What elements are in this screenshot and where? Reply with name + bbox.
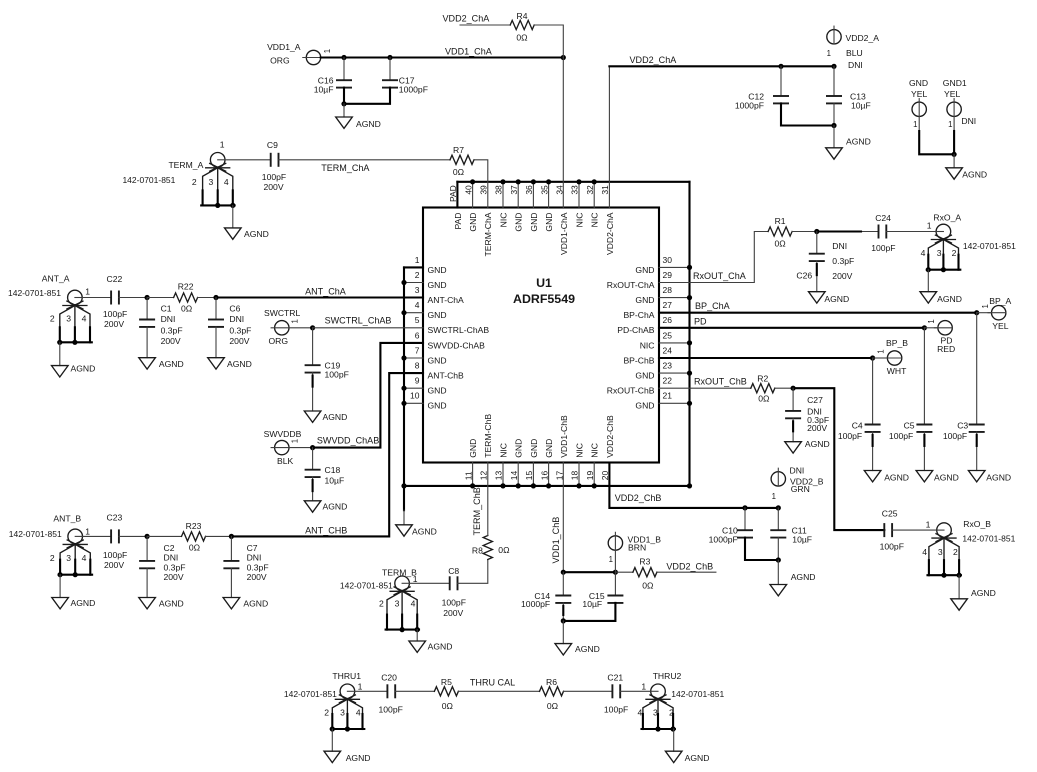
- wire VDD2_ChA rail: [609, 64, 836, 69]
- capacitor C25: [880, 509, 904, 552]
- svg-text:C9: C9: [267, 140, 278, 150]
- svg-text:36: 36: [524, 185, 534, 195]
- svg-text:6: 6: [415, 330, 420, 340]
- test point BP_B: [877, 338, 909, 376]
- wire R7 to pin39: [474, 160, 488, 208]
- svg-text:SWCTRL: SWCTRL: [264, 308, 301, 318]
- svg-text:1: 1: [827, 49, 831, 58]
- svg-text:YEL: YEL: [911, 89, 927, 99]
- svg-text:3: 3: [653, 708, 658, 718]
- wire C24 to RxO_A: [886, 231, 936, 233]
- ground AGND C18: [304, 501, 347, 512]
- svg-text:C18: C18: [325, 465, 341, 475]
- node ANT_ChA label: [305, 287, 347, 297]
- svg-text:C6: C6: [229, 304, 240, 314]
- svg-text:C4: C4: [852, 421, 863, 431]
- resistor R1: [768, 216, 792, 249]
- svg-text:100pF: 100pF: [604, 704, 628, 714]
- svg-text:DNI: DNI: [790, 466, 805, 476]
- ground AGND TERM_A: [225, 228, 269, 239]
- svg-text:AGND: AGND: [323, 412, 348, 422]
- wire C25 to RxO_B: [892, 529, 937, 531]
- wire R23 to junction: [206, 534, 234, 539]
- svg-text:THRU2: THRU2: [653, 671, 682, 681]
- svg-text:100pF: 100pF: [889, 431, 913, 441]
- ground AGND C26: [809, 292, 850, 304]
- svg-text:100pF: 100pF: [325, 370, 349, 380]
- svg-text:15: 15: [524, 470, 534, 480]
- svg-text:BP-ChB: BP-ChB: [623, 355, 654, 365]
- capacitor C2: [139, 536, 185, 597]
- resistor R23: [182, 521, 206, 553]
- svg-text:RxOUT_ChB: RxOUT_ChB: [694, 376, 747, 386]
- wire to AGND C14: [562, 621, 564, 644]
- node VDD2_ChA label left: [443, 14, 491, 24]
- test point VDD1_B: [608, 532, 661, 564]
- wire BP_B from pin24: [659, 355, 887, 360]
- svg-text:10: 10: [410, 391, 420, 401]
- node ANT_CHB label: [305, 526, 347, 536]
- svg-text:100pF: 100pF: [943, 431, 967, 441]
- svg-text:NIC: NIC: [590, 443, 600, 458]
- svg-text:VDD1-ChB: VDD1-ChB: [559, 415, 569, 458]
- svg-text:VDD2_A: VDD2_A: [846, 33, 880, 43]
- svg-text:10µF: 10µF: [314, 85, 334, 95]
- wire pin17 VDD1-ChB vertical: [561, 463, 566, 575]
- svg-text:3: 3: [66, 553, 71, 563]
- node RxOUT_ChA label: [693, 271, 747, 281]
- svg-text:VDD2-ChA: VDD2-ChA: [605, 212, 615, 255]
- node BP_ChA label: [695, 301, 731, 311]
- node TERM_ChA label: [321, 163, 370, 173]
- svg-text:R3: R3: [639, 556, 650, 566]
- svg-text:16: 16: [539, 470, 549, 480]
- svg-text:3: 3: [395, 599, 400, 609]
- svg-text:BRN: BRN: [628, 542, 646, 552]
- capacitor C10: [709, 508, 779, 560]
- capacitor C9: [262, 140, 286, 192]
- svg-text:GND: GND: [635, 401, 654, 411]
- svg-text:ORG: ORG: [269, 336, 289, 346]
- svg-text:27: 27: [663, 300, 673, 310]
- wire TERM_A AGND lead: [232, 205, 234, 228]
- svg-text:19: 19: [585, 470, 595, 480]
- wire RxOUT_ChB down to C25: [793, 388, 884, 530]
- wire VDD1_ChA rail: [321, 55, 566, 60]
- pin numbers bottom row 11-20: [463, 470, 610, 480]
- svg-text:TERM_ChA: TERM_ChA: [321, 163, 370, 173]
- svg-text:12: 12: [479, 470, 489, 480]
- wire SWVDD_ChAB to pin6: [313, 343, 423, 448]
- svg-text:142-0701-851: 142-0701-851: [9, 529, 62, 539]
- test point SWVDDB: [264, 429, 302, 466]
- svg-text:1: 1: [927, 221, 932, 231]
- svg-text:2: 2: [953, 547, 958, 557]
- svg-text:0Ω: 0Ω: [442, 701, 454, 711]
- svg-text:0Ω: 0Ω: [498, 545, 510, 555]
- svg-text:TERM_A: TERM_A: [168, 160, 203, 170]
- ground AGND C4: [864, 471, 909, 483]
- svg-text:2: 2: [415, 270, 420, 280]
- svg-text:PAD: PAD: [448, 185, 458, 202]
- wire AGND right bus: [688, 182, 690, 486]
- svg-text:0Ω: 0Ω: [453, 167, 465, 177]
- svg-text:PAD: PAD: [453, 213, 463, 230]
- svg-text:4: 4: [415, 300, 420, 310]
- wire C22 to R22: [119, 295, 174, 300]
- svg-text:NIC: NIC: [574, 443, 584, 458]
- svg-text:200V: 200V: [807, 423, 827, 433]
- svg-text:ANT_A: ANT_A: [42, 273, 70, 283]
- svg-text:VDD2_ChA: VDD2_ChA: [443, 14, 491, 24]
- svg-text:U1: U1: [536, 276, 552, 290]
- svg-text:GND: GND: [428, 310, 447, 320]
- svg-text:1000pF: 1000pF: [709, 535, 738, 545]
- svg-text:142-0701-851: 142-0701-851: [963, 241, 1016, 251]
- svg-text:GND: GND: [428, 401, 447, 411]
- svg-text:21: 21: [663, 391, 673, 401]
- svg-text:DNI: DNI: [848, 60, 863, 70]
- wire AGND left bus: [404, 267, 423, 524]
- ground AGND C7: [223, 598, 268, 609]
- ground AGND C5: [916, 471, 959, 483]
- wire pin34 VDD1-ChA: [562, 58, 564, 208]
- svg-text:2: 2: [952, 248, 957, 258]
- svg-text:ANT-ChB: ANT-ChB: [428, 371, 465, 381]
- node VDD2_ChB label at pin20: [615, 493, 662, 503]
- svg-text:4: 4: [922, 547, 927, 557]
- svg-text:2: 2: [50, 314, 55, 324]
- svg-text:DNI: DNI: [161, 314, 176, 324]
- svg-text:5: 5: [415, 315, 420, 325]
- svg-text:4: 4: [356, 708, 361, 718]
- svg-text:SWCTRL-ChAB: SWCTRL-ChAB: [428, 325, 490, 335]
- svg-text:37: 37: [509, 185, 519, 195]
- svg-text:DNI: DNI: [229, 314, 244, 324]
- capacitor C18: [305, 448, 345, 501]
- wire THRU2 AGND lead: [673, 729, 675, 751]
- svg-text:TERM_ChB: TERM_ChB: [472, 487, 482, 535]
- svg-text:SWVDD_ChAB: SWVDD_ChAB: [317, 435, 379, 445]
- svg-text:1: 1: [926, 519, 931, 529]
- svg-text:ORG: ORG: [270, 56, 290, 66]
- wire GND1 to junction: [952, 116, 957, 156]
- svg-text:AGND: AGND: [356, 119, 381, 129]
- wire top grounded pin stubs: [470, 179, 597, 207]
- ground AGND C1: [139, 358, 184, 370]
- svg-text:200V: 200V: [104, 319, 124, 329]
- svg-text:1: 1: [948, 120, 952, 129]
- ground AGND C10 C11: [770, 572, 816, 596]
- svg-text:R6: R6: [546, 677, 557, 687]
- svg-text:4: 4: [638, 708, 643, 718]
- wire C23 to R23: [119, 534, 182, 539]
- svg-text:VDD1_ChB: VDD1_ChB: [551, 517, 561, 564]
- svg-text:GND: GND: [428, 265, 447, 275]
- svg-text:R1: R1: [775, 216, 786, 226]
- svg-text:100pF: 100pF: [262, 172, 286, 182]
- wire TERM_A to C9: [225, 159, 271, 161]
- svg-text:142-0701-851: 142-0701-851: [340, 581, 393, 591]
- svg-text:3: 3: [66, 314, 71, 324]
- svg-text:WHT: WHT: [887, 366, 907, 376]
- svg-text:35: 35: [539, 185, 549, 195]
- wire AGND bottom bus: [401, 483, 692, 488]
- resistor R7: [450, 145, 474, 177]
- ground AGND C16: [336, 117, 381, 129]
- svg-text:VDD2_ChB: VDD2_ChB: [666, 561, 713, 571]
- svg-text:40: 40: [463, 185, 473, 195]
- node SWVDD_ChAB label: [317, 435, 379, 445]
- svg-text:AGND: AGND: [323, 502, 348, 512]
- ground AGND C13: [826, 137, 871, 160]
- node VDD1_ChA label: [445, 47, 493, 57]
- node THRU CAL label: [470, 678, 515, 688]
- svg-text:1000pF: 1000pF: [399, 85, 428, 95]
- svg-text:8: 8: [415, 361, 420, 371]
- svg-text:VDD2_ChA: VDD2_ChA: [630, 55, 678, 65]
- wire to AGND C11: [777, 560, 779, 585]
- node C16 C17 junction: [341, 101, 346, 106]
- pin names left column: [428, 265, 490, 411]
- node PD label: [694, 317, 707, 327]
- svg-text:GND: GND: [468, 213, 478, 232]
- svg-text:VDD1_ChA: VDD1_ChA: [445, 47, 493, 57]
- svg-text:AGND: AGND: [962, 169, 987, 179]
- wire ANT_A to C22: [82, 297, 111, 299]
- svg-text:GND: GND: [544, 439, 554, 458]
- wire RxO_B AGND lead: [958, 575, 960, 599]
- capacitor C19: [305, 328, 349, 411]
- svg-text:DNI: DNI: [961, 116, 976, 126]
- capacitor C1: [139, 298, 182, 358]
- node RxOUT_ChB label: [694, 376, 747, 386]
- svg-text:1: 1: [85, 526, 90, 536]
- svg-text:C5: C5: [904, 421, 915, 431]
- capacitor C13: [826, 66, 871, 128]
- svg-text:R22: R22: [178, 281, 194, 291]
- wire VDD1_B to junction: [614, 550, 616, 572]
- svg-text:100pF: 100pF: [103, 550, 127, 560]
- pin names bottom row: [468, 414, 615, 458]
- svg-text:SWVDD-ChAB: SWVDD-ChAB: [428, 340, 486, 350]
- svg-text:GND: GND: [635, 265, 654, 275]
- svg-text:142-0701-851: 142-0701-851: [962, 534, 1015, 544]
- svg-text:RED: RED: [937, 344, 955, 354]
- svg-text:AGND: AGND: [575, 644, 600, 654]
- svg-text:C2: C2: [164, 543, 175, 553]
- wire R1 to C24: [792, 229, 878, 234]
- svg-text:PD: PD: [694, 317, 707, 327]
- resistor R5: [434, 677, 458, 711]
- resistor R22: [174, 281, 198, 313]
- svg-text:VDD1_A: VDD1_A: [267, 42, 301, 52]
- svg-text:AGND: AGND: [244, 229, 269, 239]
- svg-text:200V: 200V: [161, 336, 181, 346]
- capacitor C26: [796, 232, 854, 292]
- svg-text:38: 38: [494, 185, 504, 195]
- wire PD from pin26: [659, 325, 938, 330]
- wire R4 to VDD1_ChA rail: [534, 25, 563, 58]
- svg-text:TERM-ChB: TERM-ChB: [483, 414, 493, 458]
- svg-text:0Ω: 0Ω: [642, 580, 654, 590]
- svg-text:28: 28: [663, 285, 673, 295]
- test point VDD1_A: [267, 42, 332, 66]
- wire R6 to C21: [564, 690, 613, 692]
- svg-text:C1: C1: [161, 304, 172, 314]
- resistor R2: [751, 374, 775, 404]
- svg-text:RxOUT-ChB: RxOUT-ChB: [607, 386, 655, 396]
- test point VDD2_B: [771, 466, 824, 502]
- ground AGND GND1: [946, 168, 987, 180]
- svg-text:24: 24: [663, 345, 673, 355]
- ground AGND C19: [304, 411, 347, 422]
- svg-text:2: 2: [192, 177, 197, 187]
- capacitor C12: [735, 66, 834, 125]
- svg-text:1: 1: [609, 555, 613, 564]
- ground AGND ANT_A: [52, 363, 96, 377]
- connector THRU2 142-0701-851: [638, 671, 725, 732]
- svg-text:0Ω: 0Ω: [774, 238, 786, 248]
- ground AGND left bus: [396, 525, 437, 537]
- svg-text:7: 7: [415, 345, 420, 355]
- capacitor C27: [785, 388, 829, 442]
- svg-text:C3: C3: [957, 421, 968, 431]
- wire RxOUT_ChB from pin22: [659, 387, 751, 389]
- test point GND1: [943, 78, 976, 129]
- svg-text:200V: 200V: [229, 336, 249, 346]
- wire to AGND GND1: [953, 154, 955, 168]
- wire to AGND C13: [833, 126, 835, 148]
- svg-text:ANT_CHB: ANT_CHB: [305, 526, 347, 536]
- capacitor C15: [563, 572, 623, 621]
- svg-text:RxO_A: RxO_A: [933, 212, 961, 222]
- svg-text:29: 29: [663, 270, 673, 280]
- svg-text:100pF: 100pF: [880, 542, 904, 552]
- svg-text:NIC: NIC: [498, 213, 508, 228]
- svg-text:4: 4: [82, 553, 87, 563]
- svg-text:R7: R7: [453, 145, 464, 155]
- svg-text:1: 1: [220, 139, 225, 149]
- svg-text:3: 3: [340, 708, 345, 718]
- svg-text:1: 1: [291, 439, 300, 443]
- svg-text:TERM-ChA: TERM-ChA: [483, 212, 493, 256]
- svg-text:ANT_B: ANT_B: [53, 514, 81, 524]
- wire RxO_A AGND lead: [927, 270, 929, 292]
- svg-text:AGND: AGND: [227, 359, 252, 369]
- wire TERM_ChB to pin12: [487, 463, 489, 536]
- svg-text:25: 25: [663, 330, 673, 340]
- capacitor C17: [344, 58, 428, 104]
- svg-text:R8: R8: [472, 546, 483, 556]
- svg-text:9: 9: [415, 376, 420, 386]
- svg-text:18: 18: [570, 470, 580, 480]
- svg-text:3: 3: [209, 177, 214, 187]
- pin names right column: [607, 265, 655, 411]
- wire bottom grounded pin stubs: [470, 463, 597, 489]
- svg-text:RxOUT-ChA: RxOUT-ChA: [607, 280, 655, 290]
- wire ANT_B AGND lead: [59, 575, 61, 598]
- connector TERM_B 142-0701-851: [340, 568, 420, 633]
- svg-text:GND: GND: [909, 78, 928, 88]
- svg-text:C24: C24: [875, 213, 891, 223]
- svg-text:AGND: AGND: [791, 572, 816, 582]
- resistor R6: [540, 677, 564, 711]
- svg-text:VDD2_ChB: VDD2_ChB: [615, 493, 662, 503]
- svg-text:AGND: AGND: [346, 753, 371, 763]
- svg-text:ANT-ChA: ANT-ChA: [428, 295, 465, 305]
- ground AGND C14 C15: [555, 644, 600, 655]
- ground AGND THRU1: [324, 751, 371, 763]
- svg-text:142-0701-851: 142-0701-851: [8, 288, 61, 298]
- svg-text:GND: GND: [529, 213, 539, 232]
- svg-text:32: 32: [585, 185, 595, 195]
- svg-text:200V: 200V: [164, 572, 184, 582]
- wire VDD2_ChA to R4: [460, 24, 510, 26]
- svg-text:4: 4: [921, 248, 926, 258]
- svg-text:10µF: 10µF: [851, 101, 871, 111]
- connector RxO_B 142-0701-851: [922, 519, 1015, 578]
- wire R2 to junction: [775, 386, 796, 391]
- svg-text:AGND: AGND: [884, 472, 909, 482]
- ground AGND TERM_B: [409, 641, 453, 652]
- pin names top row: [453, 212, 615, 256]
- node VDD2_ChB label at R3: [666, 561, 713, 571]
- svg-text:YEL: YEL: [992, 321, 1008, 331]
- svg-text:GND: GND: [635, 371, 654, 381]
- svg-text:1: 1: [927, 319, 936, 323]
- svg-text:0.3pF: 0.3pF: [161, 325, 183, 335]
- svg-text:DNI: DNI: [164, 553, 179, 563]
- svg-text:C23: C23: [107, 512, 123, 522]
- svg-text:1: 1: [415, 255, 420, 265]
- svg-text:AGND: AGND: [846, 137, 871, 147]
- svg-text:RxOUT_ChA: RxOUT_ChA: [693, 271, 747, 281]
- pin numbers right column 30-21: [663, 255, 673, 401]
- svg-text:4: 4: [224, 177, 229, 187]
- svg-text:SWVDDB: SWVDDB: [264, 429, 302, 439]
- svg-text:0Ω: 0Ω: [547, 701, 559, 711]
- svg-text:AGND: AGND: [159, 359, 184, 369]
- ground AGND RxO_B: [951, 588, 996, 610]
- svg-text:4: 4: [411, 599, 416, 609]
- svg-text:0.3pF: 0.3pF: [164, 562, 186, 572]
- test point SWCTRL: [264, 308, 301, 346]
- svg-text:100pF: 100pF: [871, 243, 895, 253]
- svg-text:GND: GND: [635, 295, 654, 305]
- svg-text:R5: R5: [441, 677, 452, 687]
- ground AGND ANT_B: [52, 598, 96, 609]
- svg-text:0Ω: 0Ω: [189, 543, 201, 553]
- connector THRU1 142-0701-851: [284, 671, 364, 732]
- node VDD1_ChB label: [551, 517, 561, 564]
- svg-text:NIC: NIC: [590, 213, 600, 228]
- svg-text:AGND: AGND: [685, 753, 710, 763]
- ground AGND RxO_A: [920, 292, 962, 304]
- svg-text:200V: 200V: [104, 560, 124, 570]
- test point VDD2_A: [827, 26, 880, 70]
- svg-text:AGND: AGND: [971, 588, 996, 598]
- IC U1 ADRF5549: [423, 208, 659, 463]
- svg-text:AGND: AGND: [986, 472, 1011, 482]
- wire pin20 VDD2-ChB: [609, 463, 781, 511]
- svg-text:0Ω: 0Ω: [516, 33, 528, 43]
- svg-text:C20: C20: [381, 672, 397, 682]
- svg-text:3: 3: [938, 547, 943, 557]
- svg-text:1: 1: [413, 574, 418, 584]
- svg-text:1000pF: 1000pF: [521, 599, 550, 609]
- svg-text:BP-ChA: BP-ChA: [623, 310, 654, 320]
